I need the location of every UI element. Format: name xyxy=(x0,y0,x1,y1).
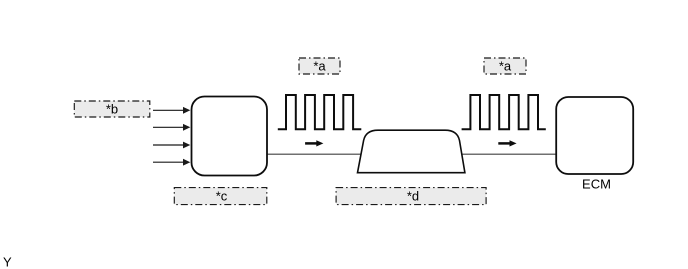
label box *b xyxy=(74,101,150,117)
wire from converter to ECM xyxy=(267,153,556,155)
connector dome (*d) xyxy=(358,130,465,173)
svg-text:ECM: ECM xyxy=(582,176,611,191)
ECM box xyxy=(556,97,633,174)
svg-text:Y: Y xyxy=(3,255,12,269)
label box *a (left) xyxy=(299,58,340,74)
label box *a (right) xyxy=(484,58,526,74)
svg-text:*d: *d xyxy=(407,189,419,204)
svg-text:*a: *a xyxy=(499,58,512,73)
flow arrow 1 xyxy=(305,140,323,146)
input arrow 4 xyxy=(153,159,190,166)
svg-text:*c: *c xyxy=(216,189,228,204)
pulse waveform 2 xyxy=(462,95,546,129)
label box *d xyxy=(336,188,486,205)
input arrow 2 xyxy=(153,124,190,131)
input arrow 3 xyxy=(153,142,190,149)
svg-text:*a: *a xyxy=(313,58,326,73)
svg-text:*b: *b xyxy=(106,101,118,116)
converter box (*c) xyxy=(192,97,268,176)
input arrow 1 xyxy=(153,107,190,114)
label box *c xyxy=(174,188,266,205)
pulse waveform 1 xyxy=(278,95,362,129)
flow arrow 2 xyxy=(498,140,516,146)
